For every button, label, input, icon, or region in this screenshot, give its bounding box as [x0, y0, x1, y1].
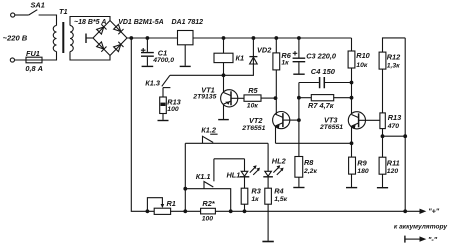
svg-text:К1.2: К1.2 [201, 126, 217, 135]
NPN arrow VT2 emitter [275, 125, 279, 129]
arrowhead plus output [420, 209, 427, 214]
terminal circle top left [11, 13, 15, 17]
wire output vertical [404, 38, 406, 211]
svg-text:100: 100 [202, 215, 214, 222]
wire top-right bracket [383, 38, 406, 52]
ground bar C3 [293, 73, 304, 75]
capacitor C3 [298, 38, 300, 58]
svg-text:R1: R1 [167, 199, 176, 208]
ground bar C1 [142, 65, 154, 67]
ground bar VT1 emitter [218, 119, 229, 121]
svg-text:R12: R12 [387, 53, 401, 62]
transistor VT1 [221, 90, 238, 107]
resistor R3 [244, 159, 246, 188]
plus sign C3 [293, 51, 298, 55]
svg-text:1,3к: 1,3к [387, 62, 400, 69]
wire +12V rail [127, 37, 178, 39]
svg-text:180: 180 [357, 168, 369, 175]
diode VD2 [170, 38, 254, 75]
resistor R4 [267, 177, 269, 188]
resistor R2* [201, 208, 216, 214]
svg-text:DA1 7812: DA1 7812 [172, 19, 204, 26]
resistor R12 [379, 52, 386, 69]
svg-text:4700,0: 4700,0 [152, 57, 174, 64]
NPN arrow VT3 emitter [351, 125, 355, 129]
wire [171, 210, 201, 212]
svg-text:К1: К1 [236, 53, 245, 62]
svg-text:470: 470 [387, 123, 400, 130]
transformer T1 secondary winding [70, 26, 73, 52]
contact K1.1 [185, 189, 230, 212]
svg-text:R4: R4 [274, 186, 283, 195]
svg-text:FU1: FU1 [26, 49, 40, 58]
transformer T1 primary winding [53, 26, 56, 52]
svg-text:~220 В: ~220 В [3, 33, 28, 42]
capacitor C1 [146, 38, 148, 52]
wire vertical left contact bus [184, 143, 186, 211]
svg-text:2,2к: 2,2к [303, 168, 317, 175]
svg-text:2Т6551: 2Т6551 [241, 125, 265, 132]
svg-text:R10: R10 [356, 51, 370, 60]
transistor VT2 [273, 112, 290, 129]
svg-text:R2*: R2* [202, 199, 215, 208]
minus output stub [404, 236, 406, 243]
svg-text:К1.1: К1.1 [196, 172, 211, 181]
plus sign C1 [141, 48, 146, 52]
resistor R10 [351, 38, 353, 51]
fuse FU1 [26, 57, 42, 63]
voltage regulator DA1 [178, 31, 194, 45]
ground bar DA1 [180, 65, 191, 67]
diode VD1 bottom-right [113, 42, 123, 52]
svg-text:100: 100 [167, 106, 179, 113]
svg-text:VT3: VT3 [324, 115, 337, 124]
resistor R13 (470) [380, 113, 385, 129]
svg-text:R8: R8 [304, 158, 314, 167]
svg-text:R7 4,7к: R7 4,7к [308, 101, 335, 110]
relay coil K1 [223, 38, 225, 53]
resistor R7 [299, 97, 311, 99]
wire DA1 ground pin [184, 45, 186, 66]
wire bottom charging path [131, 38, 154, 211]
wire [39, 15, 57, 26]
terminal circle bottom left [10, 58, 14, 62]
ground bar main [262, 241, 273, 243]
svg-text:R13: R13 [388, 113, 401, 122]
svg-text:HL2: HL2 [272, 157, 287, 166]
wire base net vertical [298, 83, 300, 157]
wire secondary bottom [70, 52, 110, 61]
wire branch to output [383, 135, 406, 137]
ground chassis bar at bridge [85, 34, 87, 44]
contact K1.2 [185, 142, 268, 144]
svg-text:VD1 В2М1-5А: VD1 В2М1-5А [118, 19, 164, 26]
svg-text:R9: R9 [357, 158, 367, 167]
wire bridge minus stub [86, 37, 93, 39]
svg-text:HL1: HL1 [227, 170, 241, 179]
svg-text:С3 220,0: С3 220,0 [306, 52, 337, 61]
resistor R9 [349, 157, 356, 174]
svg-text:~18 В*5 А: ~18 В*5 А [74, 19, 107, 26]
svg-text:VT2: VT2 [249, 116, 263, 125]
svg-text:"-": "-" [428, 235, 438, 244]
ground bar R8 [293, 187, 304, 189]
svg-text:0,8 А: 0,8 А [25, 64, 43, 73]
diode VD1 top-right [113, 24, 123, 34]
transistor VT3 [348, 112, 365, 129]
svg-text:"+": "+" [428, 207, 440, 216]
contact K1.3 [162, 75, 170, 86]
svg-text:к аккумулятору: к аккумулятору [394, 224, 447, 231]
svg-text:1,5к: 1,5к [274, 196, 287, 203]
resistor R5 [244, 95, 261, 101]
capacitor C4 [299, 82, 352, 84]
svg-text:120: 120 [387, 168, 399, 175]
wire rail after DA1 [193, 37, 352, 39]
bridge rectifier VD1 diamond [93, 21, 127, 56]
ground bar R11 [377, 187, 388, 189]
resistor R6 [275, 38, 277, 53]
svg-text:1к: 1к [281, 59, 289, 66]
svg-text:2Т9135: 2Т9135 [192, 94, 216, 101]
wire secondary top [70, 17, 110, 26]
svg-text:10к: 10к [356, 62, 368, 69]
svg-text:Т1: Т1 [59, 7, 68, 16]
PNP arrow VT1 emitter [225, 102, 230, 105]
svg-text:1к: 1к [251, 196, 259, 203]
resistor R8 [295, 157, 303, 178]
svg-text:R5: R5 [248, 86, 258, 95]
wire [15, 14, 29, 16]
svg-text:R3: R3 [251, 186, 260, 195]
wire emitter bus [276, 142, 352, 144]
rheostat R1 [154, 208, 170, 214]
transformer T1 core [62, 22, 64, 53]
LED HL1 [241, 171, 248, 176]
wire bottom path to plus arrow [215, 210, 419, 212]
svg-text:10к: 10к [247, 103, 259, 110]
diode VD1 bottom-left [96, 42, 106, 52]
ground bar R9 [346, 187, 357, 189]
ground bar below R13 [158, 120, 169, 122]
diode VD1 top-left [96, 24, 106, 34]
switch SA1 [29, 10, 38, 15]
wire HL1 feed [214, 158, 245, 160]
svg-text:С4 150: С4 150 [311, 67, 336, 76]
resistor R13 (100) [162, 88, 164, 97]
svg-text:SA1: SA1 [31, 1, 45, 10]
svg-text:К1.3: К1.3 [145, 79, 160, 88]
svg-text:2Т6551: 2Т6551 [319, 124, 343, 131]
LED HL2 [267, 143, 269, 171]
svg-text:R11: R11 [387, 158, 400, 167]
wire [15, 52, 57, 61]
resistor R11 [379, 157, 386, 174]
svg-text:VD2: VD2 [257, 45, 272, 54]
